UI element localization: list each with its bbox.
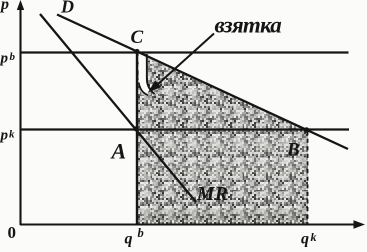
svg-text:k: k [9,129,15,141]
brace hook marking bribe on segment CA [147,54,155,94]
y-axis [17,0,24,225]
white channel left of brace hook [139,54,152,94]
point A [133,126,138,131]
svg-text:MR: MR [196,184,228,205]
svg-text:b: b [138,226,144,240]
demand curve D [57,15,348,150]
svg-text:D: D [60,0,74,17]
dashed quantity line q^k [307,131,309,224]
svg-text:p: p [0,51,9,67]
svg-text:0: 0 [8,223,17,242]
bribe arrow [148,34,214,93]
price line p^k [21,128,350,130]
shaded region under demand between q^b and q^k [138,54,308,225]
svg-text:k: k [311,230,317,244]
svg-text:B: B [286,140,300,161]
x-axis [20,220,365,229]
svg-text:C: C [131,27,144,48]
point B [304,127,310,133]
price line p^b [21,51,349,53]
point C [134,49,139,54]
svg-text:q: q [125,231,133,248]
quantity line q^b [136,52,138,225]
svg-text:b: b [10,51,16,63]
svg-text:q: q [301,231,309,248]
svg-text:p: p [0,0,9,13]
svg-text:A: A [110,139,127,164]
MR curve [40,14,196,202]
svg-text:взятка: взятка [215,13,282,38]
svg-text:p: p [0,128,9,144]
